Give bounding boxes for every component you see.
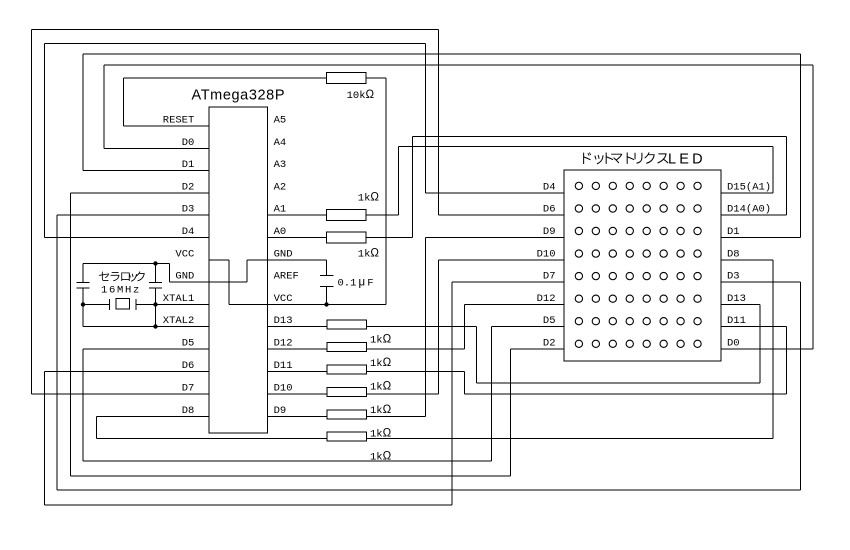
pin label RESET (ATmega left) (163, 115, 195, 127)
dot matrix LED body DS1 (564, 170, 721, 361)
resistor R5 1k ohm (327, 343, 367, 352)
svg-text:D7: D7 (182, 383, 195, 395)
wire 0.1uF capacitor stubs (326, 287, 328, 305)
pin label D8 (ATmega left) (182, 405, 195, 417)
svg-text:RESET: RESET (163, 115, 195, 127)
svg-text:LED: LED (668, 152, 706, 168)
wire net D11 (ATmega D11 through 1k to LED D11) (268, 327, 787, 395)
svg-text:D6: D6 (182, 360, 195, 372)
value label 16MHz (101, 285, 141, 297)
svg-text:D5: D5 (182, 338, 195, 350)
svg-text:D8: D8 (182, 405, 195, 417)
pin label D8 (LED right) (727, 249, 740, 261)
svg-text:D2: D2 (182, 182, 195, 194)
wire net D7 (ATmega D7 to LED D6 pin) (32, 30, 565, 395)
pin label D10 (LED left) (537, 249, 556, 261)
capacitor C1 plates (left of resonator) (77, 282, 90, 288)
svg-text:D4: D4 (182, 226, 195, 238)
pin label VCC (ATmega left) (175, 249, 194, 261)
pin label D9 (LED left) (543, 226, 556, 238)
resonator label katakana (ceralock) (99, 271, 145, 281)
value label 1k ohm (A0) (358, 248, 380, 261)
resistor R3 1k ohm (A0 line) (327, 232, 367, 243)
value label 1k ohm (R5) (370, 357, 392, 370)
pin label AREF (ATmega right) (274, 271, 299, 283)
pin label D9 (ATmega right) (274, 405, 287, 417)
svg-text:A1: A1 (274, 204, 287, 216)
pin label A0 (ATmega right) (274, 226, 287, 238)
wire net XTAL2 (83, 326, 209, 328)
junction resonator right / XTAL2 (153, 324, 157, 328)
pin label D12 (ATmega right) (274, 338, 293, 350)
value label 1k ohm (R8) (370, 428, 392, 441)
wire net D2 (ATmega D2 to LED D2) (71, 193, 565, 476)
wire net XTAL1 (83, 304, 209, 306)
resistor R7 1k ohm (327, 388, 367, 397)
wire net D10 (ATmega D10 through 1k to LED D10) (268, 260, 565, 394)
wire net D8 (ATmega D8 through 1k resistor to LED D8) (97, 260, 774, 439)
svg-text:D12: D12 (537, 293, 556, 305)
svg-text:1kΩ: 1kΩ (370, 381, 392, 394)
resistor R4 1k ohm (327, 320, 367, 329)
pin label D13 (ATmega right) (274, 315, 293, 327)
wire right capacitor rails (155, 264, 157, 327)
svg-text:D10: D10 (537, 249, 556, 261)
pin label D4 (ATmega left) (182, 226, 195, 238)
svg-text:16MHz: 16MHz (101, 285, 141, 297)
pin label D10 (ATmega right) (274, 383, 293, 395)
svg-text:D0: D0 (182, 137, 195, 149)
wire net D9 (ATmega D9 through 1k to LED D9) (268, 238, 565, 417)
svg-text:ATmega328P: ATmega328P (192, 88, 286, 104)
pin label GND (ATmega left) (175, 271, 194, 283)
pin label D2 (LED left) (543, 338, 556, 350)
value label 10k ohm (347, 89, 375, 102)
capacitor C3 0.1uF plates (320, 276, 334, 287)
svg-text:10kΩ: 10kΩ (347, 89, 375, 102)
pin label D6 (LED left) (543, 204, 556, 216)
LED block title latin suffix "LED" (668, 152, 706, 168)
svg-text:D4: D4 (543, 182, 556, 194)
IC title ATmega328P (192, 88, 286, 104)
wire net D13 (ATmega D13 through 1k to LED D13) (268, 305, 761, 384)
pin label A3 (ATmega right) (274, 159, 287, 171)
wire net A1 (ATmega A1 through 1k to LED D15) (268, 147, 774, 216)
wire net A0 (ATmega A0 through 1k to LED D14) (268, 137, 787, 238)
svg-text:AREF: AREF (274, 271, 299, 283)
pin label A5 (ATmega right) (274, 115, 287, 127)
pin label D11 (ATmega right) (274, 360, 293, 372)
svg-text:D1: D1 (182, 159, 195, 171)
wire net RESET (ATmega RESET to 10k pull-up) (124, 78, 327, 126)
svg-text:D10: D10 (274, 383, 293, 395)
svg-text:D1: D1 (727, 226, 740, 238)
pin label D14(A0) (LED right) (727, 204, 771, 216)
pin label D7 (LED left) (543, 271, 556, 283)
pin label D7 (ATmega left) (182, 383, 195, 395)
svg-text:XTAL1: XTAL1 (163, 293, 195, 305)
svg-text:D12: D12 (274, 338, 293, 350)
svg-text:1kΩ: 1kΩ (370, 334, 392, 347)
svg-text:D3: D3 (182, 204, 195, 216)
ATmega328P IC body U1 (209, 107, 268, 433)
svg-text:A4: A4 (274, 137, 287, 149)
svg-text:A2: A2 (274, 182, 287, 194)
svg-text:A5: A5 (274, 115, 287, 127)
svg-text:1kΩ: 1kΩ (370, 404, 392, 417)
svg-text:D6: D6 (543, 204, 556, 216)
resistor R6 1k ohm (327, 365, 367, 374)
resistor R2 1k ohm (A1 line) (327, 210, 367, 221)
wire net D4 (ATmega D4 to LED D4) (45, 44, 565, 238)
LED block title katakana (dot-matrix) (583, 152, 668, 164)
svg-text:D15(A1): D15(A1) (727, 182, 771, 194)
wire net D1 (ATmega D1 to LED D1) (83, 54, 801, 238)
svg-text:D3: D3 (727, 271, 740, 283)
svg-text:A3: A3 (274, 159, 287, 171)
resistor R9 1k ohm (327, 432, 367, 441)
wire left capacitor rails (82, 264, 84, 327)
svg-text:1kΩ: 1kΩ (358, 248, 380, 261)
junction resonator right top / GND (153, 261, 157, 265)
LED matrix 8x8 dots (575, 182, 701, 347)
wire net D5 (ATmega D5 to LED D5) (83, 327, 564, 462)
value label 0.1uF (338, 277, 374, 290)
pin label D11 (LED right) (727, 315, 746, 327)
value label 1k ohm (R4) (370, 334, 392, 347)
pin label GND (ATmega right) (274, 249, 293, 261)
pin label D1 (LED right) (727, 226, 740, 238)
svg-text:D13: D13 (274, 315, 293, 327)
svg-text:GND: GND (175, 271, 194, 283)
pin label D5 (ATmega left) (182, 338, 195, 350)
svg-text:D5: D5 (543, 315, 556, 327)
pin label D0 (LED right) (727, 338, 740, 350)
capacitor C2 plates (right of resonator) (149, 282, 162, 288)
svg-text:D7: D7 (543, 271, 556, 283)
pin label XTAL1 (ATmega left) (163, 293, 195, 305)
pin label A2 (ATmega right) (274, 182, 287, 194)
junction 0.1uF / VCC (324, 302, 328, 306)
pin label D5 (LED left) (543, 315, 556, 327)
svg-text:1kΩ: 1kΩ (370, 357, 392, 370)
svg-text:1kΩ: 1kΩ (358, 192, 380, 205)
wire net VCC (VCC pins to 10k pull-up) (209, 78, 386, 305)
pin label XTAL2 (ATmega left) (163, 315, 195, 327)
svg-text:D9: D9 (274, 405, 287, 417)
resistor R8 1k ohm (327, 410, 367, 419)
pin label D4 (LED left) (543, 182, 556, 194)
value label 1k ohm (R6) (370, 381, 392, 394)
svg-text:0.1 μ F: 0.1 μ F (338, 277, 374, 290)
svg-text:D9: D9 (543, 226, 556, 238)
wire net D6 (ATmega D6 to LED D7 pin) (45, 282, 565, 505)
resistor R1 10k ohm (RESET pull-up) (327, 73, 367, 84)
pin label A4 (ATmega right) (274, 137, 287, 149)
pin label D12 (LED left) (537, 293, 556, 305)
pin label D3 (LED right) (727, 271, 740, 283)
svg-text:VCC: VCC (274, 293, 293, 305)
pin label D2 (ATmega left) (182, 182, 195, 194)
svg-text:D14(A0): D14(A0) (727, 204, 771, 216)
pin label D15(A1) (LED right) (727, 182, 771, 194)
svg-text:D11: D11 (727, 315, 746, 327)
ceramic resonator X1 16MHz symbol (110, 299, 137, 311)
svg-text:D8: D8 (727, 249, 740, 261)
value label 1k ohm (R7) (370, 404, 392, 417)
pin label VCC (ATmega right) (274, 293, 293, 305)
wire net D0 (ATmega D0 to LED D0) (104, 65, 813, 349)
svg-text:D0: D0 (727, 338, 740, 350)
svg-text:A0: A0 (274, 226, 287, 238)
pin label D3 (ATmega left) (182, 204, 195, 216)
wire resonator top (caps to GND) (83, 263, 156, 265)
wire net D3 (ATmega D3 to LED D3) (57, 215, 801, 490)
svg-text:XTAL2: XTAL2 (163, 315, 195, 327)
svg-text:D13: D13 (727, 293, 746, 305)
svg-text:1kΩ: 1kΩ (370, 451, 392, 464)
value label 1k ohm (A1) (358, 192, 380, 205)
svg-text:D11: D11 (274, 360, 293, 372)
svg-text:1kΩ: 1kΩ (370, 428, 392, 441)
pin label D13 (LED right) (727, 293, 746, 305)
pin label D0 (ATmega left) (182, 137, 195, 149)
junction resonator left / XTAL1 (81, 302, 85, 306)
pin label A1 (ATmega right) (274, 204, 287, 216)
value label 1k ohm (R9) (370, 451, 392, 464)
pin label D1 (ATmega left) (182, 159, 195, 171)
svg-text:GND: GND (274, 249, 293, 261)
svg-text:D2: D2 (543, 338, 556, 350)
wire net D12 (ATmega D12 through 1k to LED D12) (268, 305, 565, 350)
svg-text:VCC: VCC (175, 249, 194, 261)
wire net GND (resonator to GND pins and 0.1uF) (156, 260, 327, 282)
junction resonator right / XTAL1 (153, 302, 157, 306)
pin label D6 (ATmega left) (182, 360, 195, 372)
